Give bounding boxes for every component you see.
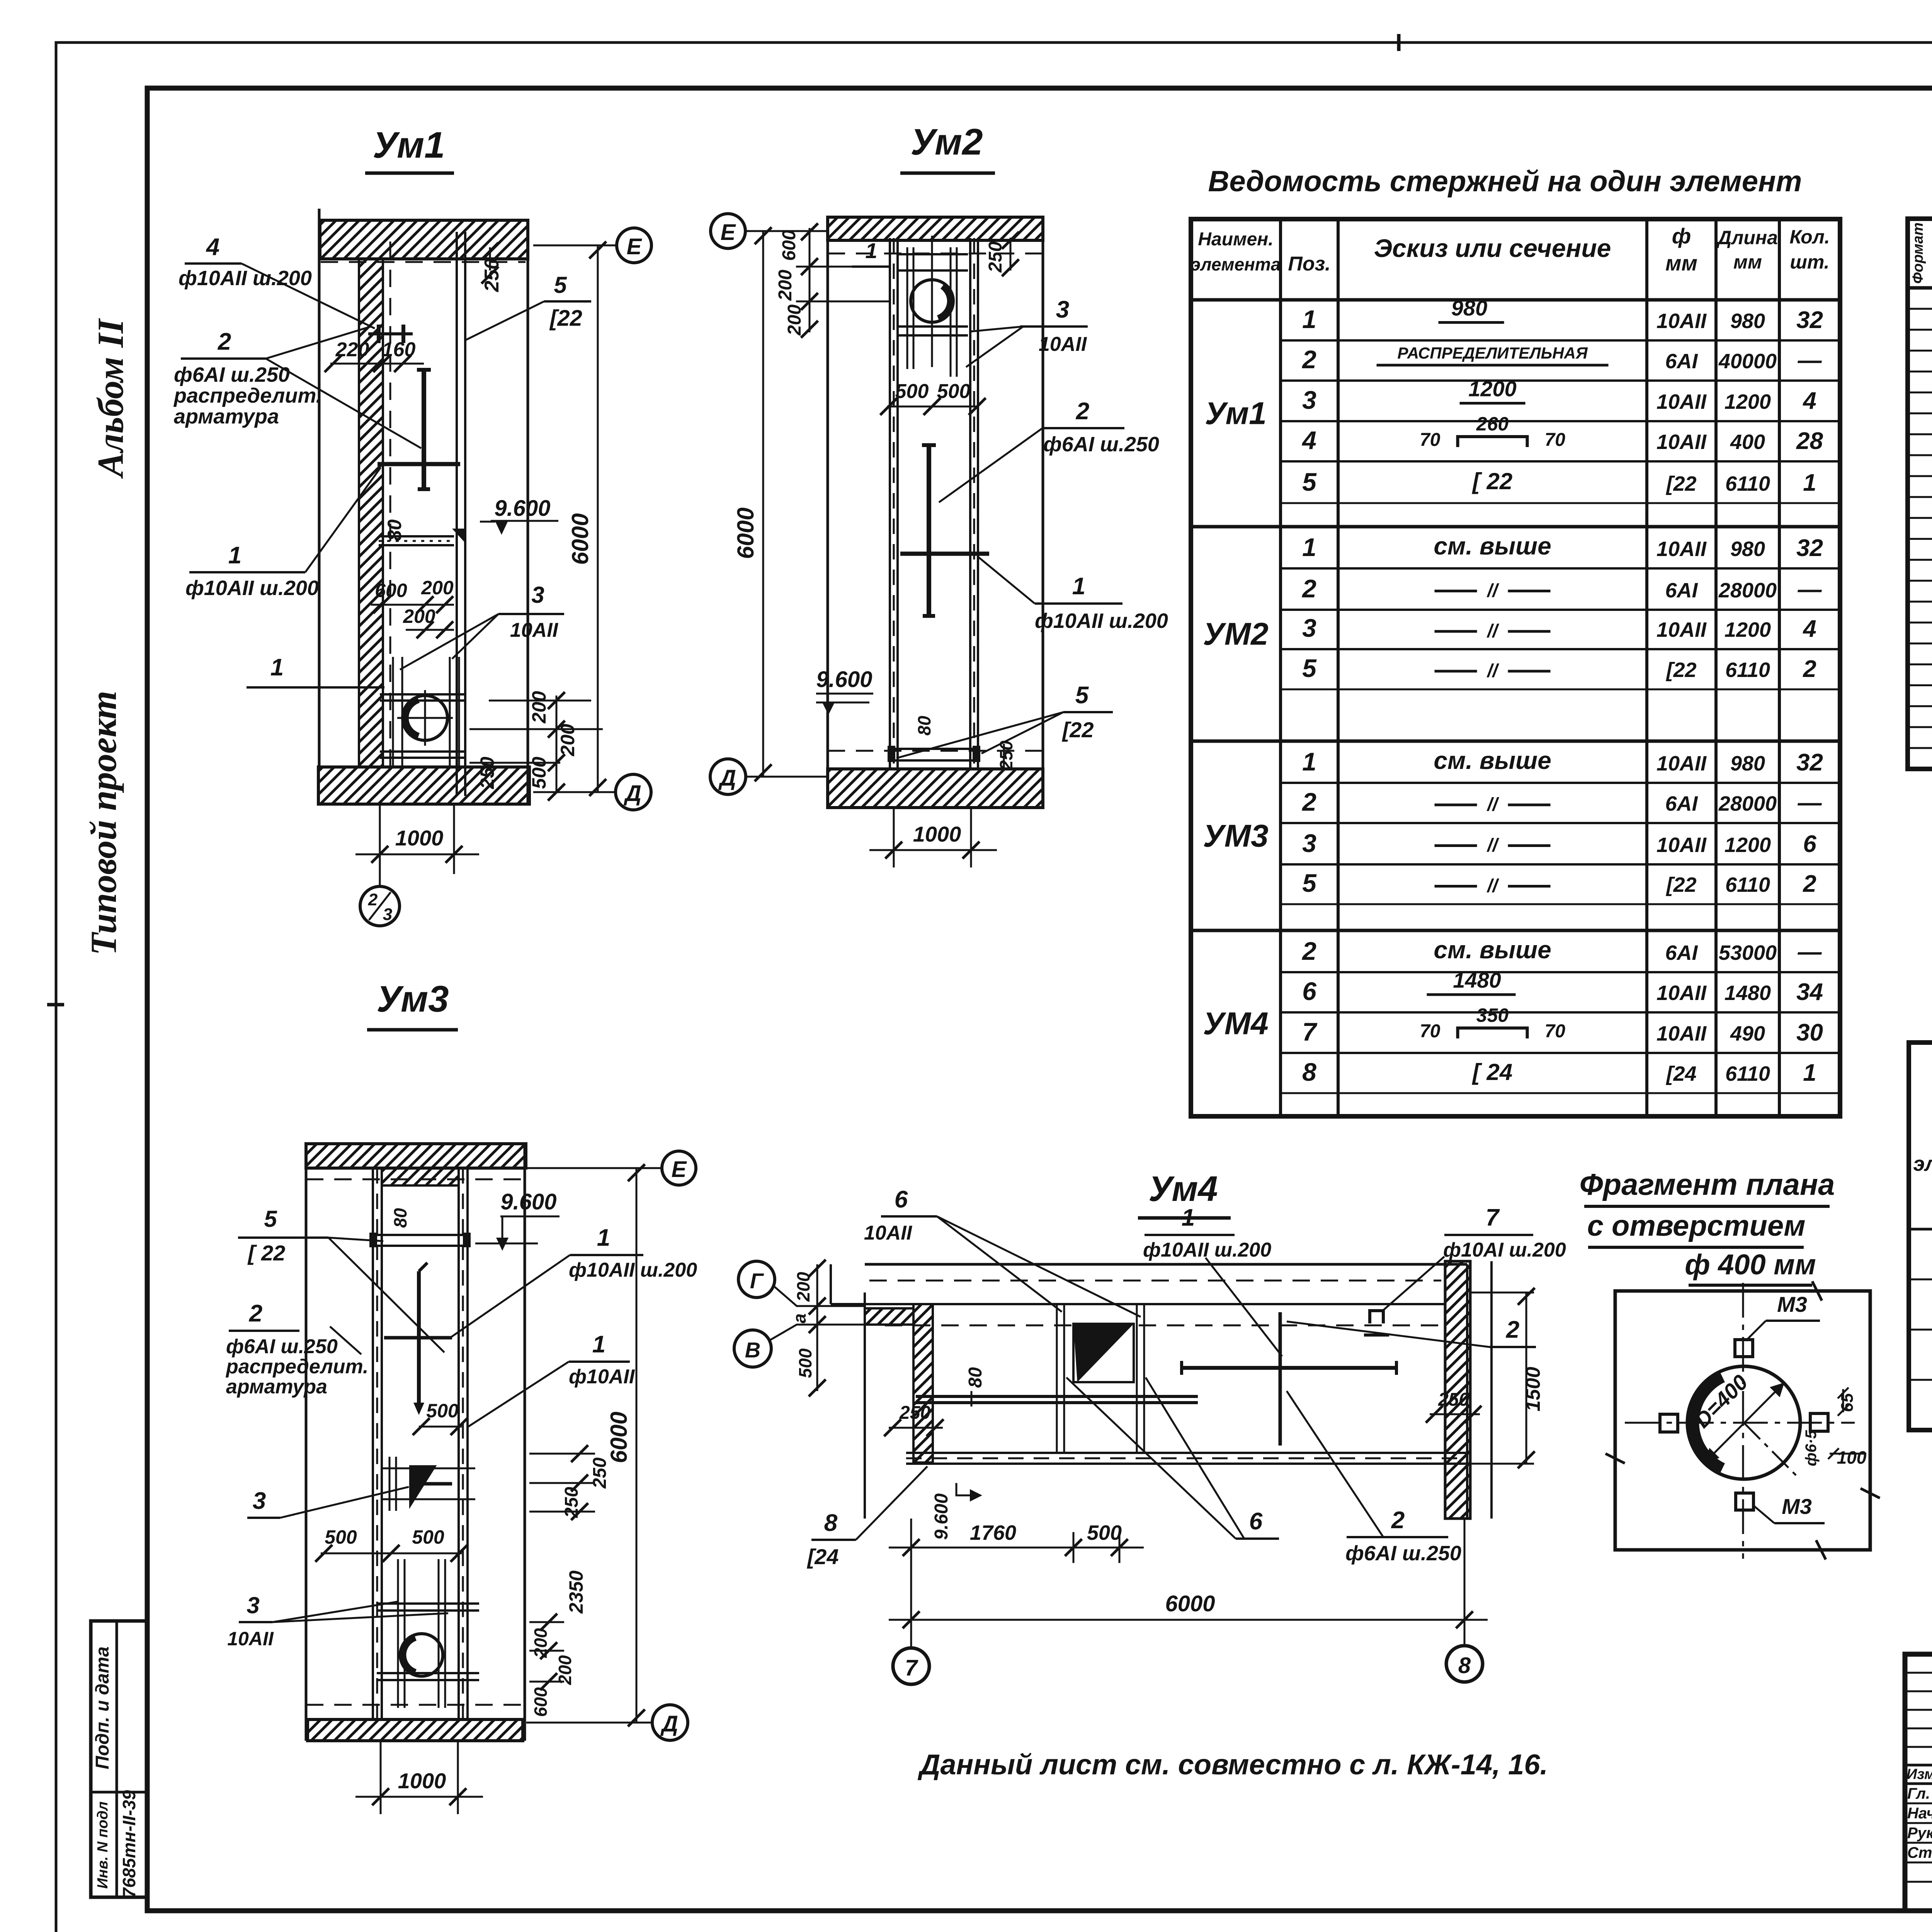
Ум4 right pilaster hatched [1445, 1261, 1470, 1519]
svg-text:28: 28 [1796, 428, 1823, 454]
svg-text:элемента: элемента [1913, 1152, 1932, 1175]
Ум3 right formwork wall (double) [457, 1168, 460, 1720]
svg-text:10АII: 10АII [1656, 430, 1707, 454]
Ум3 rebar crossbar [384, 1336, 452, 1340]
svg-text:70: 70 [1420, 430, 1440, 450]
svg-text:ф6АI ш.250: ф6АI ш.250 [1043, 433, 1159, 456]
svg-text:1: 1 [1072, 573, 1085, 600]
Ум4 dim 1760/500 [910, 1519, 912, 1638]
svg-text:34: 34 [1796, 979, 1823, 1005]
Ум1 top slab (hatched) [320, 220, 528, 259]
svg-text:Д: Д [623, 781, 641, 806]
Ум4 dim 6000 [1464, 1519, 1466, 1638]
svg-text:260: 260 [1476, 413, 1509, 435]
Ум1 axis circle Е [533, 245, 617, 247]
svg-text:1: 1 [1803, 1060, 1816, 1086]
svg-text:Формат: Формат [1910, 223, 1926, 284]
svg-text:160: 160 [382, 338, 416, 361]
svg-text:1: 1 [1302, 533, 1316, 561]
svg-text:350: 350 [1476, 1005, 1509, 1026]
Ум2 right outline [1042, 217, 1044, 808]
Ум3 rebar pos1 vertical [417, 1271, 421, 1410]
svg-text:7: 7 [905, 1655, 918, 1680]
svg-text:10АII: 10АII [1656, 618, 1707, 641]
svg-text:—: — [1798, 789, 1822, 816]
Ум2 axis circle Д [746, 776, 828, 778]
fragment plan: horizontal axis [1625, 1422, 1855, 1424]
Ум3 top slab (hatched) [306, 1144, 526, 1168]
svg-text:3: 3 [247, 1592, 259, 1618]
svg-text:2: 2 [1506, 1316, 1519, 1343]
Ум3 dim 1000 [380, 1741, 382, 1814]
svg-text:[22: [22 [1665, 873, 1696, 896]
svg-text:Ведомость стержней на один эл: Ведомость стержней на один элемент [1208, 165, 1802, 198]
Ум2 left dims 600/200/200 (rotated) [809, 228, 811, 332]
Ум4 left step hatched band [865, 1308, 913, 1325]
Ум3 axis circle Е [527, 1167, 661, 1169]
svg-text:2: 2 [249, 1300, 262, 1327]
svg-text:ф: ф [1672, 224, 1691, 248]
Ум4 stirrup pair 1 (double vertical) [1056, 1304, 1058, 1453]
svg-text:500: 500 [528, 757, 550, 789]
svg-text:80: 80 [384, 519, 405, 541]
svg-text:ф10АII ш.200: ф10АII ш.200 [1035, 609, 1168, 633]
svg-text:200: 200 [775, 270, 796, 301]
svg-text:Изм: Изм [1906, 1766, 1932, 1782]
svg-text:1760: 1760 [970, 1521, 1016, 1544]
svg-text:ф6АI ш.250: ф6АI ш.250 [226, 1335, 338, 1358]
Ум1 right outline [527, 220, 529, 804]
svg-text:28000: 28000 [1718, 579, 1777, 602]
fragment plan: vertical axis [1742, 1283, 1744, 1559]
svg-text:10АII: 10АII [1656, 1022, 1707, 1045]
Ум4 axis circle В [734, 1330, 771, 1367]
svg-text:1480: 1480 [1453, 968, 1501, 992]
svg-text:980: 980 [1451, 296, 1487, 320]
Ум3 weld plate with black triangle [410, 1466, 435, 1505]
svg-text:Г: Г [750, 1269, 764, 1293]
svg-text:3: 3 [1302, 829, 1316, 857]
Ум2 dashed top tie [931, 236, 933, 367]
Ум4 bottom slab lines [906, 1452, 1467, 1454]
Ум1 rebar pos4 top detail [377, 325, 381, 343]
svg-text:32: 32 [1796, 307, 1823, 333]
svg-text:6: 6 [1302, 977, 1317, 1005]
svg-text:шт.: шт. [1790, 251, 1829, 273]
svg-text:80: 80 [390, 1208, 410, 1228]
svg-text:—: — [1798, 347, 1822, 374]
svg-text:РАСПРЕДЕЛИТЕЛЬНАЯ: РАСПРЕДЕЛИТЕЛЬНАЯ [1397, 344, 1588, 362]
Ум2 hidden lines [828, 253, 1043, 255]
fragment plan: hole circle D400 [1687, 1366, 1800, 1479]
fragment plan: square outline [1615, 1291, 1870, 1550]
svg-text:6000: 6000 [1165, 1591, 1215, 1616]
svg-text:ф 400 мм: ф 400 мм [1685, 1248, 1816, 1281]
svg-text:с отверстием: с отверстием [1587, 1209, 1806, 1242]
svg-text:6: 6 [1249, 1508, 1263, 1535]
svg-text://: // [1486, 661, 1499, 681]
fragment plan: M3 plate bottom [1736, 1493, 1753, 1510]
svg-text:6: 6 [895, 1186, 908, 1213]
svg-text:200: 200 [421, 577, 454, 599]
svg-text:250: 250 [561, 1487, 582, 1518]
svg-text:ф10АII ш.200: ф10АII ш.200 [569, 1259, 697, 1281]
svg-text:600: 600 [779, 230, 799, 261]
svg-text:7: 7 [1302, 1017, 1318, 1046]
Ум4 rebar pos2 vertical bar [1279, 1312, 1282, 1446]
svg-text:250: 250 [476, 757, 498, 789]
svg-text:400: 400 [1730, 430, 1765, 454]
svg-text:6110: 6110 [1725, 658, 1770, 682]
svg-text:ф10АII ш.200: ф10АII ш.200 [1143, 1239, 1271, 1261]
svg-text:5: 5 [1302, 468, 1317, 496]
svg-text:200: 200 [528, 691, 550, 724]
Ум1 rebar pos1 horizontal bar [378, 462, 460, 466]
svg-text:см. выше: см. выше [1434, 747, 1551, 774]
svg-text:9.600: 9.600 [494, 496, 550, 521]
svg-text:6110: 6110 [1725, 472, 1770, 495]
svg-text:[22: [22 [549, 306, 582, 331]
table Выборка: outer [1909, 1043, 1932, 1430]
Ум3 pipe hole circle [400, 1634, 443, 1676]
svg-text:Ум1: Ум1 [1205, 396, 1267, 431]
svg-text:3: 3 [253, 1488, 266, 1514]
svg-text:10АII: 10АII [1656, 310, 1707, 333]
Ум2 left outline [827, 217, 829, 808]
svg-text:5: 5 [1302, 869, 1317, 897]
svg-text:6АI: 6АI [1665, 941, 1698, 964]
Ум2 central rebar pos2 [927, 445, 931, 616]
svg-text:8: 8 [824, 1510, 838, 1536]
svg-text:1: 1 [270, 654, 284, 681]
svg-text:80: 80 [914, 716, 934, 736]
svg-text:Гл. инж пр: Гл. инж пр [1907, 1785, 1932, 1802]
Ум1 bottom rebar horizontals [380, 693, 466, 696]
svg-text:1: 1 [1182, 1204, 1195, 1231]
svg-text:мм: мм [1733, 251, 1762, 273]
svg-text:1480: 1480 [1725, 981, 1771, 1005]
svg-text:5: 5 [264, 1206, 277, 1232]
fragment plan: M3 plate left [1660, 1414, 1678, 1432]
svg-text:УМ2: УМ2 [1203, 617, 1268, 652]
Ум1 formwork dashed line [389, 241, 391, 767]
table Ведомость: block УМ4 [1191, 929, 1840, 932]
Ум1 pipe hole circle [403, 696, 447, 740]
svg-text:Альбом II: Альбом II [90, 318, 131, 479]
svg-text:30: 30 [1796, 1019, 1823, 1046]
svg-text:Подп. и дата: Подп. и дата [92, 1646, 113, 1769]
svg-text:10АII: 10АII [510, 619, 559, 641]
svg-text:Ум3: Ум3 [376, 978, 449, 1020]
Ум1 bottom slab (hatched) [318, 767, 529, 804]
svg-text:5: 5 [1302, 654, 1317, 682]
Ум4 top flange underside [831, 1303, 1445, 1305]
Ум3 rotated dims right 250/250/2350/200/200/600 [529, 1453, 595, 1455]
fold mark top [1397, 34, 1401, 51]
svg-text:500: 500 [895, 380, 929, 403]
svg-text:250: 250 [985, 241, 1006, 273]
svg-text:200: 200 [555, 1655, 575, 1685]
Ум4 left outline [864, 1293, 866, 1519]
Ум2 dim 500 500 [887, 406, 979, 408]
svg-text:арматура: арматура [226, 1376, 327, 1398]
Ум3 bottom slab (hatched) [308, 1719, 523, 1741]
svg-text:6000: 6000 [567, 513, 593, 565]
svg-text:2350: 2350 [565, 1570, 587, 1614]
svg-text:1000: 1000 [395, 826, 444, 850]
Ум3 lower rebar cluster [397, 1559, 399, 1708]
svg-text:8: 8 [1458, 1653, 1471, 1678]
svg-text:1200: 1200 [1725, 833, 1771, 857]
fragment plan: diameter callout D=400 [1705, 1383, 1784, 1463]
svg-text:9.600: 9.600 [500, 1189, 556, 1214]
svg-text:Наимен.: Наимен. [1198, 229, 1273, 250]
svg-text:4: 4 [1802, 616, 1816, 642]
table Ведомость: block УМ3 [1191, 740, 1840, 743]
Ум1 rebar pos1 vertical bar [422, 370, 426, 489]
svg-text:2: 2 [1301, 787, 1316, 816]
fold mark left [47, 1003, 64, 1007]
svg-text:Ум4: Ум4 [1148, 1169, 1218, 1209]
svg-text:500: 500 [412, 1526, 444, 1548]
svg-text:10АII: 10АII [1039, 333, 1087, 355]
svg-text:а: а [789, 1313, 810, 1323]
svg-text:элемента: элемента [1191, 254, 1281, 274]
Ум2 top rebar details [906, 247, 908, 369]
Ум1 axis circle Д [533, 791, 615, 793]
svg-text:6АI: 6АI [1665, 792, 1698, 815]
svg-text:мм: мм [1665, 251, 1697, 275]
svg-text:490: 490 [1730, 1022, 1765, 1045]
Ум4 left wall hatched strip [913, 1304, 933, 1463]
svg-text:УМ3: УМ3 [1203, 818, 1268, 854]
svg-text:500: 500 [325, 1526, 357, 1548]
svg-text:8: 8 [1302, 1058, 1316, 1086]
Ум4 axis circle 8 [1446, 1646, 1483, 1682]
svg-text:Д: Д [718, 765, 736, 791]
svg-text:2: 2 [1301, 345, 1316, 374]
svg-text:6110: 6110 [1725, 1062, 1770, 1085]
svg-text:[ 22: [ 22 [247, 1241, 286, 1265]
fragment plan: diagonal axis lower-right [1744, 1423, 1796, 1475]
svg-text:М3: М3 [1782, 1494, 1812, 1519]
svg-text:Е: Е [721, 220, 736, 245]
svg-text:7: 7 [1486, 1204, 1500, 1231]
svg-text:980: 980 [1730, 537, 1765, 561]
svg-text:Ст. инж: Ст. инж [1907, 1844, 1932, 1861]
Ум1 dim 6000 vertical [597, 245, 599, 792]
svg-text:см. выше: см. выше [1434, 936, 1551, 964]
fragment plan: M3 plate right [1810, 1413, 1828, 1431]
svg-text:6: 6 [1803, 831, 1816, 857]
Ум3 hidden lines [306, 1179, 525, 1180]
Ум4 pos7 anchor detail [1370, 1311, 1383, 1323]
svg-text:1: 1 [865, 238, 877, 263]
Ум1 hidden line under slab [321, 261, 526, 263]
Ум4 dim 1500 rotated [1526, 1293, 1527, 1464]
Ум2 axis circle Е [746, 230, 828, 232]
svg-text:500: 500 [1087, 1521, 1122, 1544]
Ум4 hidden line in top band [869, 1280, 1441, 1282]
svg-text:2: 2 [1076, 398, 1089, 425]
Ум4 rebar pos1 horizontal bar [1182, 1366, 1396, 1370]
svg-text:—: — [1798, 939, 1822, 965]
svg-text:Типовой проект: Типовой проект [83, 691, 124, 956]
svg-text:70: 70 [1545, 1021, 1566, 1042]
svg-text:[ 22: [ 22 [1472, 468, 1512, 494]
svg-text:250: 250 [481, 259, 503, 293]
svg-text:Поз.: Поз. [1288, 253, 1330, 275]
svg-text:распределит.: распределит. [173, 384, 322, 407]
svg-text:7685тн-II-39: 7685тн-II-39 [119, 1790, 139, 1898]
svg-text:М3: М3 [1777, 1292, 1807, 1316]
svg-text:2: 2 [1803, 871, 1816, 897]
svg-text:6110: 6110 [1725, 873, 1770, 896]
svg-text:70: 70 [1545, 430, 1566, 450]
svg-text:[22: [22 [1665, 658, 1696, 682]
table Выборка: body rows [1909, 1228, 1932, 1231]
Ум4 stirrup pair 2 (double vertical) [1136, 1304, 1138, 1453]
svg-text:70: 70 [1420, 1021, 1440, 1042]
Ум2 rebar pos1 horizontal [900, 552, 989, 556]
svg-text:[22: [22 [1062, 718, 1094, 742]
svg-text:200: 200 [784, 304, 805, 336]
svg-text:5: 5 [554, 272, 567, 298]
Ум1 dim 1000 [379, 804, 381, 874]
Ум4 axis circle 7 [893, 1648, 929, 1684]
svg-text:6АI: 6АI [1665, 579, 1698, 602]
svg-text:1: 1 [1803, 469, 1816, 496]
svg-text:В: В [745, 1338, 760, 1362]
svg-text:4: 4 [1802, 388, 1816, 414]
svg-text:Кол.: Кол. [1789, 226, 1830, 248]
svg-text:1200: 1200 [1725, 618, 1771, 641]
Ум3 slab recess hatch [382, 1168, 459, 1185]
svg-text://: // [1486, 835, 1499, 856]
Ум3 left outline [305, 1144, 308, 1741]
svg-text:80: 80 [965, 1367, 986, 1388]
Ум4 top edge [865, 1263, 1467, 1266]
svg-text:1: 1 [1302, 747, 1316, 776]
Ум4 rebar lower double bar [916, 1395, 1198, 1398]
svg-text:5: 5 [1075, 682, 1089, 709]
svg-text:53000: 53000 [1719, 941, 1777, 964]
svg-text:6АI: 6АI [1665, 350, 1698, 373]
svg-text:9.600: 9.600 [931, 1493, 952, 1540]
Ум2 dim 1000 [893, 808, 895, 867]
svg-text://: // [1486, 581, 1499, 601]
svg-text:9.600: 9.600 [816, 667, 872, 692]
svg-text:Нач.сект.: Нач.сект. [1907, 1805, 1932, 1822]
svg-text:40000: 40000 [1718, 350, 1777, 373]
svg-text:4: 4 [1301, 426, 1316, 454]
svg-text:1000: 1000 [398, 1769, 446, 1793]
Ум1 mid floor slab with 80 thickness [379, 535, 454, 537]
Ум3 dim 6000 vertical [636, 1168, 638, 1723]
svg-text:см. выше: см. выше [1434, 532, 1551, 560]
svg-text:32: 32 [1796, 535, 1823, 561]
table Ведомость: outer and header grid [1191, 219, 1840, 1116]
Ум2 left formwork wall (double) [889, 238, 891, 770]
svg-text:500: 500 [426, 1400, 459, 1422]
svg-text:3: 3 [1302, 386, 1316, 414]
svg-text:3: 3 [1056, 296, 1069, 323]
svg-text:[22: [22 [1665, 472, 1696, 495]
svg-text:ф10АII ш.200: ф10АII ш.200 [185, 577, 319, 600]
svg-text:Д: Д [660, 1711, 678, 1736]
svg-text:Эскиз или сечение: Эскиз или сечение [1374, 234, 1611, 262]
svg-text:980: 980 [1730, 310, 1765, 333]
svg-text:220: 220 [335, 338, 369, 361]
svg-text:Длина: Длина [1716, 227, 1778, 248]
svg-text:6000: 6000 [606, 1412, 632, 1463]
Ум2 top slab (hatched) [828, 217, 1043, 240]
Ум3 right outline [524, 1144, 526, 1741]
svg-text:УМ4: УМ4 [1203, 1006, 1268, 1041]
table Ведомость: block УМ2 [1191, 525, 1840, 529]
svg-text:200: 200 [531, 1628, 551, 1658]
svg-text:1: 1 [1302, 305, 1316, 333]
Ум2 dim 6000 vertical [762, 231, 764, 777]
svg-text:ф10АI ш.200: ф10АI ш.200 [1443, 1239, 1566, 1261]
Ум4 axis circle Г [738, 1261, 775, 1298]
svg-text:распределит.: распределит. [225, 1355, 369, 1378]
svg-text:10АII: 10АII [227, 1628, 274, 1650]
Ум3 axis circle Д [526, 1722, 652, 1724]
Ум3 left formwork wall (double) [372, 1168, 374, 1720]
svg-text:Данный лист см. совместно с л.: Данный лист см. совместно с л. КЖ-14, 16… [917, 1748, 1548, 1781]
svg-text:1: 1 [592, 1331, 605, 1358]
svg-text:600: 600 [531, 1687, 551, 1717]
svg-text:2: 2 [1301, 937, 1316, 965]
svg-text:[24: [24 [807, 1544, 839, 1569]
svg-text:арматура: арматура [174, 405, 279, 428]
svg-text:2: 2 [1803, 656, 1816, 682]
svg-text:[ 24: [ 24 [1472, 1059, 1512, 1085]
svg-text://: // [1486, 621, 1499, 641]
Ум2 pipe hole circle [911, 280, 953, 322]
svg-text:3: 3 [383, 905, 392, 924]
svg-text:10АII: 10АII [1656, 537, 1707, 561]
svg-text:1: 1 [228, 542, 241, 569]
Ум2 bottom channel beam [891, 749, 976, 760]
Ум1 wall strip (hatched) [359, 259, 383, 767]
svg-text:10АII: 10АII [1656, 833, 1707, 857]
Ум2 right formwork wall (double) [969, 238, 971, 770]
svg-text:Ум1: Ум1 [372, 124, 445, 166]
svg-text:10АII: 10АII [1656, 981, 1707, 1005]
svg-text:2: 2 [368, 890, 378, 909]
svg-text:600: 600 [375, 580, 407, 601]
svg-text://: // [1486, 794, 1499, 815]
svg-text:[24: [24 [1665, 1062, 1696, 1085]
svg-text:2: 2 [1301, 574, 1316, 603]
Ум1 axis circle 2/3 [379, 874, 381, 886]
svg-text:2: 2 [1391, 1507, 1405, 1534]
svg-text://: // [1486, 876, 1499, 896]
svg-text:1200: 1200 [1468, 377, 1517, 401]
Ум4 right outer outline [1490, 1261, 1493, 1519]
svg-text:250: 250 [899, 1403, 930, 1423]
svg-text:10АII: 10АII [864, 1222, 913, 1244]
Ум1 left outline [318, 209, 321, 767]
svg-text:1500: 1500 [1522, 1367, 1544, 1412]
svg-text:Е: Е [672, 1157, 687, 1182]
Ум2 bottom slab (hatched) [828, 769, 1043, 808]
svg-text:Е: Е [627, 234, 643, 259]
svg-text:ф10АII: ф10АII [569, 1366, 635, 1388]
Ум3 mid rebar horizontals [383, 1468, 475, 1469]
